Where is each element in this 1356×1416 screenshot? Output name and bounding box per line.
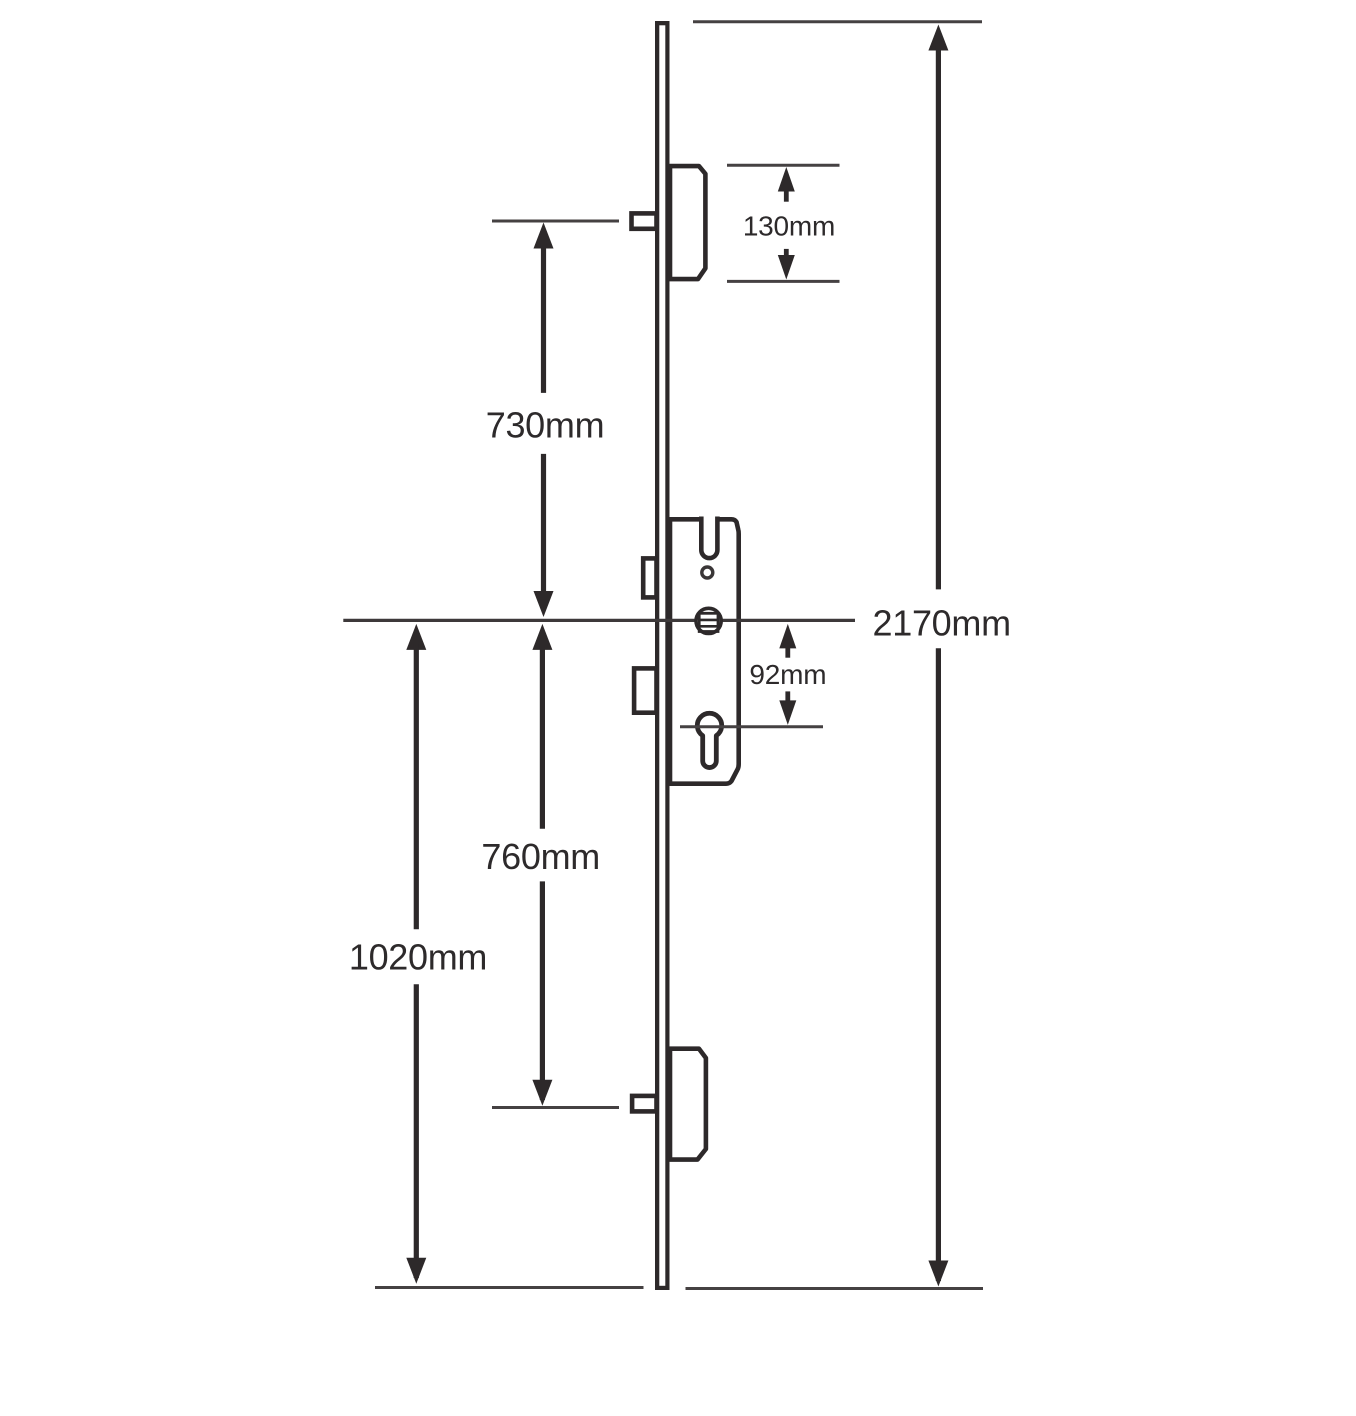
bottom-left reference line [375,1286,644,1289]
bottom latch tab [632,1096,656,1112]
svg-text:730mm: 730mm [486,405,605,446]
130mm dimension arrows [778,167,795,280]
svg-text:1020mm: 1020mm [349,937,487,978]
lower middle tab [634,668,656,712]
faceplate strip inner white [659,25,665,1286]
92mm bottom reference line [680,725,823,728]
bottom-right reference line [686,1287,984,1290]
top latch tab [632,213,657,228]
faceplate strip outer [655,21,670,1290]
follower slot [701,517,717,559]
760mm dimension line [532,624,552,1106]
centre reference line [343,619,855,622]
spindle hub [696,608,721,633]
upper middle tab [643,558,656,597]
130mm top reference line [727,164,840,167]
gearbox plate [670,519,739,783]
730mm top reference line [492,220,619,223]
svg-text:92mm: 92mm [749,659,826,690]
760mm bottom reference line [492,1106,619,1109]
screw hole [702,567,713,578]
svg-text:760mm: 760mm [481,836,600,877]
spindle hatch line 1 [699,619,719,622]
spindle square [699,613,718,631]
top reference line [693,20,982,23]
130mm bottom reference line [727,280,840,283]
1020mm dimension line [406,624,426,1284]
2170mm dimension line [928,25,948,1287]
top keeper [670,166,705,279]
svg-text:130mm: 130mm [743,211,835,242]
svg-text:2170mm: 2170mm [873,602,1011,643]
92mm dimension arrows [779,624,796,725]
spindle hatch line 2 [699,625,719,628]
euro cylinder keyhole [697,713,721,767]
730mm dimension line [534,223,554,618]
bottom keeper [670,1049,706,1160]
